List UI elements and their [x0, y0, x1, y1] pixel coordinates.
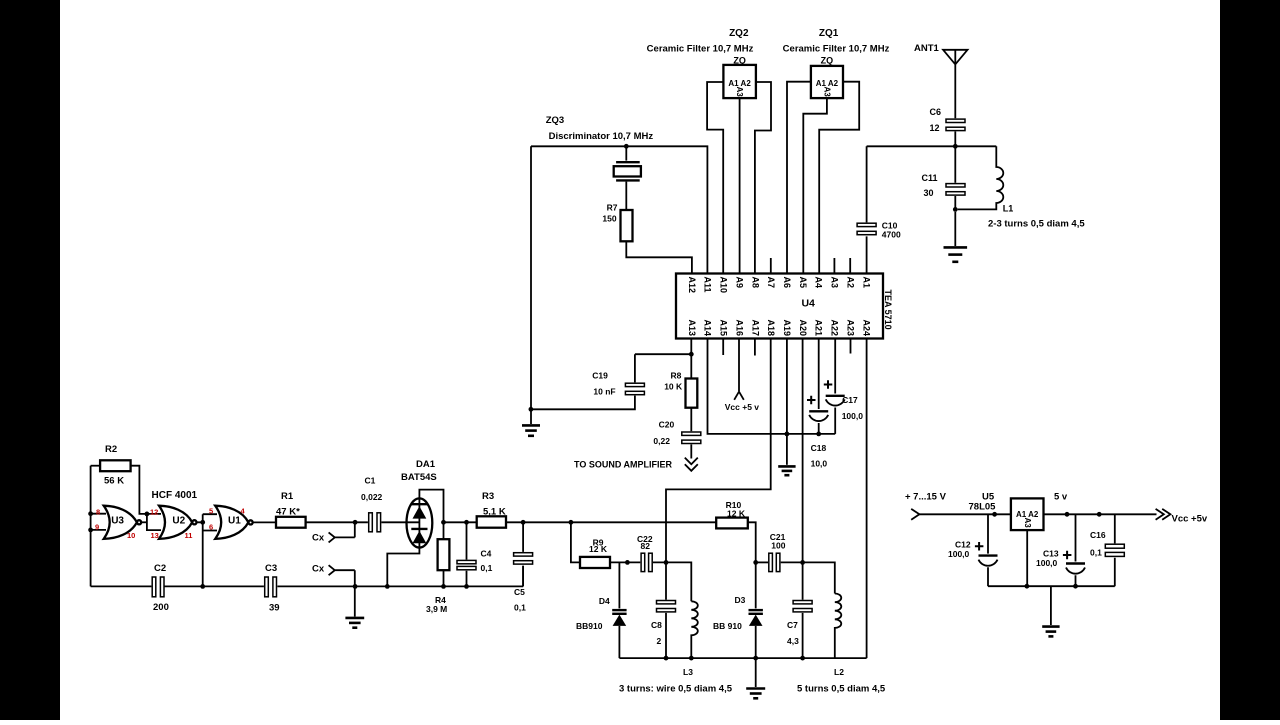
wire ZQ2 pin A1 to IC A10: [707, 82, 723, 274]
node crystal tap: [624, 144, 629, 149]
wire C11 branch: [954, 146, 956, 183]
node C7 rail junction: [800, 656, 805, 661]
label C12 value 100,0: [948, 540, 971, 560]
wire regulator ground pin: [1026, 530, 1028, 586]
svg-text:+ 7...15 V: + 7...15 V: [905, 492, 947, 503]
svg-text:C11: C11: [922, 173, 938, 183]
NOR gate U3: [104, 506, 142, 539]
svg-text:D3: D3: [735, 595, 746, 605]
svg-text:U1: U1: [228, 515, 241, 526]
svg-text:A6: A6: [782, 277, 792, 289]
svg-text:Discriminator 10,7 MHz: Discriminator 10,7 MHz: [549, 131, 654, 142]
wire C5 branch: [522, 522, 524, 586]
label R4 value 3,9 M: [426, 595, 447, 614]
wire left vertical U3 inputs: [90, 466, 92, 587]
wire antenna node horizontal: [867, 145, 997, 147]
wire ZQ2 pin A3 to IC A9: [739, 98, 741, 273]
wire IC A20 down to tank: [802, 339, 804, 563]
left letterbox bar: [0, 0, 60, 720]
label R8 value 10 K: [664, 371, 683, 392]
svg-text:BAT54S: BAT54S: [401, 472, 437, 483]
svg-text:A22: A22: [830, 319, 840, 336]
svg-text:4700: 4700: [882, 230, 901, 240]
svg-text:2: 2: [657, 636, 662, 646]
wire ZQ1 pin A1 to IC A6: [787, 82, 811, 274]
svg-text:A16: A16: [734, 319, 744, 336]
label C6 value 12: [930, 107, 942, 133]
node L3 rail junction: [689, 656, 694, 661]
svg-text:56 K: 56 K: [104, 476, 124, 487]
capacitor C4: [457, 560, 476, 569]
svg-text:0,022: 0,022: [361, 492, 383, 502]
varactor D3 BB910: [749, 610, 763, 626]
node Cx1 junction: [353, 520, 358, 525]
diode pair DA1 BAT54S: [407, 498, 433, 547]
connector Cx lower: [329, 565, 355, 586]
svg-text:ZQ3: ZQ3: [546, 115, 564, 126]
resistor R10: [716, 518, 748, 529]
capacitor C21: [769, 553, 780, 571]
wire ground stem Cx: [354, 586, 356, 616]
capacitor C2: [152, 577, 164, 597]
node R2 U2 junction: [145, 512, 150, 517]
ground tank: [746, 689, 765, 699]
svg-text:A18: A18: [766, 319, 776, 336]
svg-text:A3: A3: [830, 277, 840, 289]
right letterbox bar: [1220, 0, 1280, 720]
svg-text:9: 9: [95, 523, 99, 532]
NOR gate U1: [215, 506, 253, 539]
svg-text:100: 100: [771, 541, 785, 551]
arrow to sound amplifier: [685, 458, 698, 471]
svg-text:13: 13: [151, 531, 159, 540]
ground power: [1042, 627, 1059, 637]
label C18 value 10,0: [811, 443, 828, 469]
svg-text:R7: R7: [607, 203, 618, 213]
svg-text:BB 910: BB 910: [713, 621, 742, 631]
wire bottom rail oscillator: [91, 566, 523, 587]
capacitor C8: [657, 601, 676, 612]
wire IC A13 down through R8 node: [690, 339, 692, 379]
svg-text:10 nF: 10 nF: [593, 387, 615, 397]
IC U4 TEA5710 box: [676, 274, 883, 339]
resistor R7: [621, 210, 633, 241]
varactor D4 BB910: [612, 610, 626, 626]
label C10 value 4700: [882, 221, 901, 240]
node D4 junction: [625, 560, 630, 565]
svg-text:HCF 4001: HCF 4001: [152, 490, 198, 501]
wire C12 branch: [987, 514, 989, 586]
svg-text:L3: L3: [683, 667, 693, 677]
ground oscillator: [345, 618, 364, 628]
svg-text:100,0: 100,0: [948, 549, 970, 559]
svg-text:12 K: 12 K: [727, 509, 746, 519]
node C13 junction: [1065, 512, 1070, 517]
capacitor C13 polarized: [1063, 551, 1085, 574]
wire ground stem ZQ3: [530, 409, 532, 424]
capacitor C1: [369, 513, 381, 532]
svg-text:C3: C3: [265, 563, 277, 574]
wire R1 to C1: [306, 521, 368, 523]
ground A19: [778, 466, 795, 475]
svg-text:Cx: Cx: [312, 564, 325, 575]
svg-text:Ceramic Filter 10,7 MHz: Ceramic Filter 10,7 MHz: [647, 44, 754, 55]
wire C8 branch: [665, 562, 667, 658]
svg-text:C2: C2: [154, 563, 166, 574]
resistor R8: [686, 379, 698, 408]
svg-text:Cx: Cx: [312, 533, 325, 544]
svg-text:4,3: 4,3: [787, 636, 799, 646]
connector Cx upper: [329, 522, 355, 542]
label C17 value 100,0: [842, 395, 864, 421]
svg-text:A13: A13: [687, 319, 697, 336]
node C16 junction: [1097, 512, 1102, 517]
wire DA1 bottom terminal to rail: [387, 548, 419, 587]
wire IC A14 down and right: [708, 339, 836, 434]
svg-text:TO SOUND AMPLIFIER: TO SOUND AMPLIFIER: [574, 459, 673, 469]
svg-text:L2: L2: [834, 667, 844, 677]
wire C1 to DA1: [381, 521, 419, 523]
node U1 vertical rail junction: [200, 584, 205, 589]
node regulator rail junction: [1025, 584, 1030, 589]
node antenna junction: [953, 144, 958, 149]
wire C13 branch: [1075, 514, 1077, 586]
svg-text:10: 10: [127, 531, 135, 540]
wire R9 to C22: [610, 561, 640, 563]
svg-text:0,1: 0,1: [514, 603, 526, 613]
svg-text:A7: A7: [766, 277, 776, 289]
svg-text:U4: U4: [801, 298, 815, 310]
wire R2 right lead to U2 input: [131, 466, 161, 514]
svg-text:L1: L1: [1003, 204, 1014, 214]
node C22 A18 C8 junction: [664, 560, 669, 565]
wire power ground rail: [988, 585, 1115, 587]
svg-text:A14: A14: [703, 319, 713, 336]
wire ground stem power: [1050, 586, 1052, 625]
regulator U5 78L05 box: [1011, 498, 1044, 530]
node R9 tap junction: [569, 520, 574, 525]
svg-text:A2: A2: [845, 277, 855, 289]
node C4 junction: [464, 520, 469, 525]
wire U1 output to R1: [253, 521, 276, 523]
svg-text:A21: A21: [814, 319, 824, 336]
node R10 D3 junction: [753, 560, 758, 565]
stub IC pin A17: [754, 339, 756, 356]
wire D3 to C21: [756, 561, 768, 563]
node C5 junction: [521, 520, 526, 525]
svg-text:Vcc +5v: Vcc +5v: [1172, 514, 1208, 525]
node C19 ground junction: [529, 407, 534, 412]
svg-text:150: 150: [602, 214, 616, 224]
wire regulator output: [1044, 513, 1157, 515]
node A13 C19 junction: [689, 352, 694, 357]
svg-text:ANT1: ANT1: [914, 43, 940, 54]
wire R3 to R10 main line: [506, 521, 716, 523]
svg-text:A24: A24: [861, 319, 871, 336]
node C11 L1 junction: [953, 207, 958, 212]
capacitor C16: [1105, 544, 1124, 556]
svg-text:A17: A17: [750, 319, 760, 336]
svg-text:ZQ1: ZQ1: [819, 28, 839, 39]
svg-text:5,1 K: 5,1 K: [483, 507, 506, 518]
svg-text:5: 5: [209, 507, 213, 516]
svg-text:5 v: 5 v: [1054, 492, 1068, 503]
node U3 input 9: [88, 528, 93, 533]
ceramic filter ZQ2 box: [723, 65, 756, 98]
wire U2 output to U1 inputs: [197, 514, 218, 586]
stub IC pin A3 top: [833, 258, 835, 274]
ceramic filter ZQ1 box: [811, 66, 843, 98]
label C13 value 100,0: [1036, 549, 1059, 569]
inductor L2: [835, 594, 842, 659]
svg-text:R2: R2: [105, 444, 117, 455]
resistor R1: [276, 517, 306, 528]
svg-text:U3: U3: [111, 515, 124, 526]
wire R4 top lead: [443, 522, 445, 539]
svg-text:A23: A23: [845, 319, 855, 336]
capacitor C19: [625, 383, 644, 394]
stub IC pin A15: [722, 339, 724, 356]
svg-text:C7: C7: [787, 620, 798, 630]
wire C6 to junction: [954, 132, 956, 147]
label C20 value 0,22: [653, 420, 674, 446]
inductor L3: [691, 601, 698, 658]
svg-text:C1: C1: [365, 476, 376, 486]
svg-text:C4: C4: [481, 549, 492, 559]
node C8 rail junction: [664, 656, 669, 661]
wire DA1 top terminal over to line: [419, 490, 443, 523]
svg-text:78L05: 78L05: [969, 502, 997, 513]
svg-text:R1: R1: [281, 491, 294, 502]
svg-text:C19: C19: [592, 371, 608, 381]
svg-text:11: 11: [185, 531, 193, 540]
svg-text:C16: C16: [1090, 530, 1106, 540]
svg-text:A8: A8: [750, 277, 760, 289]
svg-text:ZQ2: ZQ2: [729, 28, 749, 39]
node C13 rail junction: [1073, 584, 1078, 589]
resistor R2: [100, 460, 131, 471]
wire tank bottom rail: [619, 657, 866, 659]
svg-text:A12: A12: [687, 277, 697, 294]
svg-text:12 K: 12 K: [589, 544, 608, 554]
node C18 junction: [816, 432, 821, 437]
label C19 value 10 nF: [592, 371, 615, 397]
capacitor C18 polarized: [807, 396, 828, 421]
svg-text:A9: A9: [734, 277, 744, 289]
wire IC A21 down to C18: [818, 339, 820, 410]
wire crystal to R7: [625, 182, 627, 210]
wire U3 output to U2: [141, 521, 147, 523]
svg-text:A15: A15: [719, 319, 729, 336]
svg-text:A11: A11: [703, 277, 713, 293]
label C5 value 0,1: [514, 587, 526, 613]
stub IC pin A2 top: [849, 258, 851, 274]
svg-text:DA1: DA1: [416, 459, 436, 470]
node C4 rail junction: [464, 584, 469, 589]
svg-text:A1: A1: [861, 277, 871, 289]
svg-text:C8: C8: [651, 620, 662, 630]
wire D3 to tank rail: [755, 626, 757, 658]
svg-text:R3: R3: [482, 491, 494, 502]
svg-text:C6: C6: [930, 107, 942, 117]
node R4 rail junction: [441, 584, 446, 589]
svg-text:30: 30: [924, 188, 934, 198]
node C21 A20 C7 junction: [800, 560, 805, 565]
wire junction to crystal: [625, 146, 627, 160]
capacitor C6: [946, 119, 965, 130]
wire C7 branch: [802, 562, 804, 658]
ground ZQ3 C19: [522, 425, 540, 435]
wire R10 right to D3 junction: [748, 522, 756, 562]
label C4 value 0,1: [481, 549, 493, 574]
svg-text:Vcc +5 v: Vcc +5 v: [725, 402, 760, 412]
svg-text:100,0: 100,0: [1036, 558, 1058, 568]
wire C10 branch down to A1: [866, 146, 868, 273]
node DA1 R4 junction: [441, 520, 446, 525]
svg-text:A3: A3: [1023, 518, 1032, 529]
wire C17 to A14 line: [834, 408, 836, 434]
capacitor C12 polarized: [975, 542, 998, 566]
label C8 value 2: [651, 620, 662, 646]
svg-text:12: 12: [150, 507, 158, 516]
svg-text:C18: C18: [811, 443, 827, 453]
capacitor C10: [857, 223, 876, 235]
wire D4 branch down: [618, 562, 620, 608]
label C7 value 4,3: [787, 620, 799, 646]
svg-text:200: 200: [153, 602, 169, 613]
svg-text:3,9 M: 3,9 M: [426, 604, 447, 614]
svg-text:8: 8: [96, 507, 100, 516]
node A19 junction: [785, 432, 790, 437]
wire R8 to C20: [690, 408, 692, 432]
svg-text:A3: A3: [735, 87, 744, 98]
capacitor C3: [265, 577, 277, 597]
wire C18 to A14 line: [818, 423, 820, 434]
wire R2 left lead: [91, 465, 101, 467]
svg-text:39: 39: [269, 603, 280, 614]
node Cx ground rail junction: [353, 584, 358, 589]
connector power input chevron: [911, 509, 919, 520]
wire IC A22 down to C17: [834, 339, 836, 394]
svg-text:47 K*: 47 K*: [276, 507, 300, 518]
svg-text:C12: C12: [955, 540, 971, 550]
inductor L1: [958, 146, 1004, 209]
wire C22 to L3 corner: [653, 562, 691, 601]
svg-text:100,0: 100,0: [842, 411, 864, 421]
svg-text:0,1: 0,1: [481, 563, 493, 573]
wire R7 to IC A12: [626, 241, 692, 273]
node C12 junction: [992, 512, 997, 517]
label C16 value 0,1: [1090, 530, 1106, 558]
svg-text:A20: A20: [798, 319, 808, 336]
svg-text:A19: A19: [782, 319, 792, 336]
svg-text:6: 6: [209, 523, 213, 532]
svg-text:C17: C17: [842, 395, 858, 405]
wire IC A16 to Vcc arrow: [738, 339, 740, 392]
connector Vcc output double chevron: [1156, 509, 1171, 520]
wire discriminator line to IC A11: [531, 146, 707, 273]
wire ZQ3 left vertical to ground: [530, 146, 532, 409]
resistor R4: [438, 539, 450, 570]
wire IC A24 down to tank rail: [866, 339, 868, 659]
wire power input to regulator: [919, 513, 1011, 515]
capacitor C7: [793, 601, 812, 612]
svg-text:82: 82: [641, 541, 651, 551]
wire C20 to sound arrow: [690, 444, 692, 458]
svg-text:R8: R8: [671, 371, 682, 381]
resistor R3: [477, 516, 506, 527]
label C11 value 30: [922, 173, 938, 198]
svg-text:A10: A10: [719, 277, 729, 294]
wire ZQ2 pin A2 to IC A8: [755, 82, 771, 274]
arrow Vcc +5v supply: [734, 392, 744, 400]
stub IC pin A23: [850, 339, 852, 354]
svg-text:10 K: 10 K: [664, 382, 683, 392]
node U3 input 8: [88, 511, 93, 516]
ground antenna: [944, 247, 968, 261]
svg-text:A4: A4: [814, 277, 824, 289]
svg-text:C5: C5: [514, 587, 525, 597]
wire C19 top horizontal: [635, 354, 691, 382]
stub IC pin A7 top: [770, 258, 772, 274]
node U2 output junction: [200, 520, 205, 525]
wire D3 branch down: [755, 562, 757, 608]
svg-text:C20: C20: [659, 420, 675, 430]
svg-text:ZQ: ZQ: [733, 56, 746, 66]
svg-text:A3: A3: [823, 87, 832, 98]
svg-text:3 turns: wire 0,5 diam 4,5: 3 turns: wire 0,5 diam 4,5: [619, 684, 733, 695]
wire antenna ground stem: [954, 212, 956, 246]
capacitor C20: [682, 432, 701, 444]
capacitor C17 polarized: [824, 380, 845, 405]
svg-text:5 turns 0,5 diam 4,5: 5 turns 0,5 diam 4,5: [797, 684, 886, 695]
wire IC A18 down to tank: [666, 339, 771, 563]
wire C4 branch: [466, 522, 468, 586]
wire IC A19 to ground: [786, 339, 788, 465]
svg-text:A5: A5: [798, 277, 808, 289]
wire R4 bottom to rail: [443, 570, 445, 586]
capacitor C5: [514, 553, 533, 564]
svg-text:Ceramic Filter 10,7 MHz: Ceramic Filter 10,7 MHz: [783, 44, 890, 55]
label R7 value 150: [602, 203, 617, 224]
wire ZQ1 pin A3 to IC A5: [803, 98, 827, 273]
wire C21 to L2 corner: [781, 562, 835, 593]
svg-text:0,1: 0,1: [1090, 548, 1102, 558]
svg-text:0,22: 0,22: [653, 436, 670, 446]
antenna ANT1: [943, 50, 967, 118]
capacitor C11: [946, 184, 965, 195]
resistor R9: [580, 557, 610, 568]
svg-text:12: 12: [930, 123, 940, 133]
wire main line DA1 to R3: [444, 521, 477, 523]
wire R9 tap down: [571, 522, 580, 562]
wire D4 to tank rail: [618, 626, 620, 658]
wire C11 bottom to node: [954, 196, 956, 209]
svg-text:BB910: BB910: [576, 621, 603, 631]
svg-text:TEA 5710: TEA 5710: [883, 290, 893, 330]
svg-text:2-3 turns 0,5 diam 4,5: 2-3 turns 0,5 diam 4,5: [988, 219, 1085, 230]
wire C16 branch: [1114, 514, 1116, 586]
wire ground stem tank: [755, 658, 757, 687]
NOR gate U2: [159, 506, 196, 539]
svg-text:U2: U2: [172, 515, 185, 526]
crystal ZQ3: [614, 162, 641, 180]
svg-text:ZQ: ZQ: [821, 56, 834, 66]
node DA1 bottom rail junction: [385, 584, 390, 589]
wire C19 bottom left to ground line: [531, 396, 635, 410]
node D3 rail ground junction: [753, 656, 758, 661]
svg-text:C13: C13: [1043, 549, 1059, 559]
